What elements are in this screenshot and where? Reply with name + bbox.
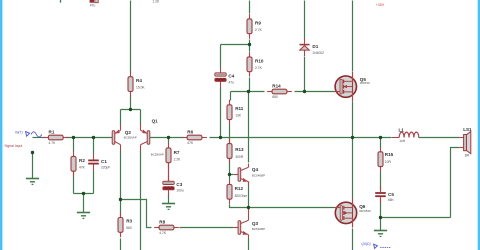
svg-text:1N4002: 1N4002 (312, 51, 324, 55)
svg-text:BC556AP: BC556AP (124, 136, 137, 140)
wire: bias node to Q6 gate (249, 207, 335, 209)
svg-text:L1: L1 (399, 128, 405, 133)
resistor R8 (154, 220, 179, 235)
wire: input to R1 (33, 137, 46, 139)
wire: R3 to bottom edge (120, 239, 122, 250)
resistor R15 (378, 147, 394, 172)
wire: Q3 emitter to bottom edge (248, 239, 250, 250)
junction: Q4 base node (228, 173, 231, 176)
wire: Q4 emitter down (248, 182, 250, 208)
wire: Q1 collector to bottom edge (140, 151, 142, 250)
svg-text:D1: D1 (312, 44, 318, 49)
wire: +35V rail to D1 (304, 1, 306, 39)
wire: output to R15 (380, 138, 382, 148)
svg-text:BC556AP: BC556AP (151, 152, 164, 156)
resistor R6 (182, 130, 207, 145)
svg-text:R8: R8 (159, 220, 165, 225)
ground (R2/C1) (77, 213, 90, 219)
MOSFET Q6 (334, 198, 371, 227)
junction: R15 branch node (379, 136, 382, 139)
wire: D1 to gate row (304, 57, 306, 92)
junction: R2/C1 ground node (82, 192, 85, 195)
wire: node to R8 (121, 200, 152, 228)
svg-text:Q6(D): Q6(D) (361, 242, 370, 246)
wire: output node to L1 (353, 137, 392, 139)
wire: R4 to emitter join (130, 97, 132, 110)
wire: R2 bottom (73, 172, 75, 194)
svg-text:R11: R11 (235, 106, 244, 111)
svg-text:R3: R3 (126, 218, 132, 223)
node IN - input probe and sine generator (15, 131, 42, 137)
svg-text:R10: R10 (255, 59, 264, 64)
svg-text:R4: R4 (136, 78, 142, 83)
junction: output node (351, 136, 354, 139)
transistor Q4 (NPN) (234, 164, 265, 186)
right border frame (476, 0, 479, 250)
svg-text:47K: 47K (187, 141, 194, 145)
resistor R9 (247, 14, 263, 39)
wire: R9 to R10 (249, 40, 251, 52)
svg-text:4.7K: 4.7K (159, 231, 167, 235)
svg-text:220pF: 220pF (101, 166, 110, 170)
wire: to ground stem (83, 194, 85, 213)
ground (C3) (162, 204, 175, 210)
wire: R15 to C5 (380, 172, 382, 191)
diode D1 1N4002 (300, 38, 325, 56)
svg-text:C4: C4 (228, 74, 234, 79)
wire: speaker return up (451, 148, 460, 218)
junction: generator node (31, 151, 34, 154)
wire: C3 to ground (168, 195, 170, 204)
resistor R4 (128, 72, 145, 97)
capacitor C1 (88, 154, 110, 171)
svg-text:Q3: Q3 (252, 221, 259, 226)
capacitor C5 (375, 186, 394, 203)
svg-text:C3: C3 (176, 182, 182, 187)
resistor R14 (267, 84, 292, 99)
wire: L1 to speaker (419, 137, 460, 139)
transistor Q3 (NPN) (234, 217, 265, 239)
wire: +35V rail down to R4 (130, 1, 132, 73)
svg-text:100u: 100u (176, 189, 184, 193)
resistor R13 (227, 139, 244, 164)
svg-text:IRF9530: IRF9530 (359, 209, 371, 213)
svg-text:Signal Input: Signal Input (4, 144, 22, 148)
wire: R9 bottom join (221, 44, 250, 46)
svg-text:680: 680 (272, 95, 278, 99)
junction: tail/emitter node (129, 108, 132, 111)
wire: bias node to Q3 collector (248, 208, 250, 217)
transistor Q2 (PNP) (112, 125, 137, 151)
resistor R3 (118, 213, 133, 238)
svg-text:C1: C1 (101, 159, 107, 164)
junction: zobel ground node (379, 216, 382, 219)
left border frame (0, 0, 2, 250)
wire: Q1 base to R6 (150, 137, 184, 139)
svg-text:Q1: Q1 (152, 119, 159, 124)
wire: Q2 collector to R3 (120, 151, 122, 217)
wire: Q2 emitter drop (120, 110, 122, 126)
svg-text:BC546BP: BC546BP (252, 173, 265, 177)
svg-text:2.7K: 2.7K (255, 66, 263, 70)
wire: R7 to C3 (168, 163, 170, 182)
svg-text:15.0K: 15.0K (136, 85, 145, 89)
svg-text:8R: 8R (465, 153, 470, 157)
svg-text:2.7K: 2.7K (255, 28, 263, 32)
capacitor C2 (cut off at top) value 47u (90, 0, 99, 7)
svg-text:R12: R12 (235, 186, 244, 191)
wire: Q6 source to bottom edge (352, 229, 354, 250)
wire: R9/R10 node to C4 (220, 45, 222, 68)
wire: Q5 source to Q6 drain (output rail) (352, 102, 354, 199)
svg-text:47K: 47K (79, 166, 86, 170)
wire: C4 to feedback row (220, 88, 222, 138)
svg-text:47u: 47u (90, 3, 96, 7)
svg-text:300R: 300R (235, 155, 244, 159)
svg-text:C5: C5 (388, 192, 394, 197)
wire: R8 to Q3 base (180, 227, 234, 229)
wire: R14 to Q5 gate (295, 91, 335, 93)
wire: R13 to R12 (229, 159, 231, 180)
junction: R1/R2 node (72, 136, 75, 139)
wire: corner down to R11 (230, 92, 232, 101)
junction: D1/gate row node (303, 90, 306, 93)
svg-text:R13: R13 (235, 147, 244, 152)
wire: C1 branch down (93, 138, 95, 154)
speaker LS1 8R (460, 127, 472, 157)
svg-text:Q2: Q2 (125, 130, 132, 135)
svg-text:R7: R7 (174, 150, 180, 155)
junction: R10/R14/Q4 node (247, 90, 250, 93)
capacitor C4 (electrolytic) (215, 67, 235, 88)
resistor R11 (227, 100, 244, 125)
wire: feedback row to output node (210, 137, 353, 139)
resistor R7 (166, 143, 181, 168)
resistor R2 (71, 151, 86, 176)
transistor Q1 (PNP) (141, 119, 164, 157)
junction: C1 node (92, 136, 95, 139)
svg-text:BC546BP: BC546BP (252, 227, 265, 231)
wire: emitter coupling Q2-Q1 (121, 109, 141, 111)
ground (signal input) (26, 179, 39, 185)
wire: to Q4 base (230, 174, 234, 176)
inductor L1 1uH (392, 128, 419, 143)
svg-text:LS1: LS1 (463, 127, 472, 132)
wire: R11 to R13 (229, 125, 231, 144)
svg-text:68n: 68n (388, 198, 394, 202)
node Q6(D) - voltage probe (361, 242, 390, 249)
svg-text:10R: 10R (385, 160, 392, 164)
svg-text:R14: R14 (272, 84, 281, 89)
svg-text:IN(T): IN(T) (15, 131, 23, 135)
junction: Q2 collector node (119, 198, 122, 201)
svg-text:R9: R9 (255, 21, 261, 26)
wire: node to ground (380, 218, 382, 231)
svg-text:820Ohm: 820Ohm (235, 194, 248, 198)
wire: return row (381, 217, 451, 219)
resistor R10 (247, 52, 264, 77)
svg-text:47u: 47u (228, 80, 234, 84)
svg-text:Q4: Q4 (252, 167, 259, 172)
wire: VAS supply to Q4 collector (248, 92, 250, 163)
wire: R10 to VAS node (249, 78, 251, 92)
junction: Q1 base/R6/R7 node (167, 136, 170, 139)
svg-text:R2: R2 (79, 158, 85, 163)
svg-text:13K: 13K (235, 114, 242, 118)
svg-text:1.2K: 1.2K (153, 0, 161, 4)
svg-text:R6: R6 (187, 130, 193, 135)
svg-text:2.2K: 2.2K (174, 157, 182, 161)
capacitor C3 (electrolytic) (163, 175, 184, 196)
resistor R1 (43, 130, 68, 145)
svg-text:R1: R1 (49, 130, 55, 135)
svg-text:+35V: +35V (376, 3, 385, 7)
junction: R9/R10 node (248, 43, 251, 46)
MOSFET Q5 (334, 72, 370, 101)
wire: R1 to Q2 base (66, 137, 113, 139)
wire stub (cut off at top edge) (60, 0, 62, 3)
wire: +35V to Q5 drain (352, 1, 354, 72)
wire: R2 branch down (73, 138, 75, 152)
junction: C4/feedback node (219, 136, 222, 139)
wire: R12 to bias node (230, 205, 249, 208)
svg-text:IRF530: IRF530 (360, 81, 370, 85)
ground (zobel/speaker) (374, 231, 387, 237)
svg-text:560: 560 (126, 226, 132, 230)
wire: +35V rail to R9 (249, 1, 251, 14)
svg-text:1uH: 1uH (399, 139, 406, 143)
svg-text:R15: R15 (385, 152, 394, 157)
wire: C1 bottom (93, 171, 95, 194)
resistor R12 (227, 179, 247, 204)
junction: bias node (247, 206, 250, 209)
wire: R2/C1 join (74, 193, 94, 195)
wire: generator to ground (32, 153, 34, 179)
wire: junction to R7 (168, 138, 170, 144)
wire: VAS row to R14 (231, 91, 265, 93)
svg-text:4.7K: 4.7K (49, 141, 57, 145)
wire: Q1 emitter drop (140, 110, 142, 126)
wire: C5 to ground node (380, 199, 382, 218)
